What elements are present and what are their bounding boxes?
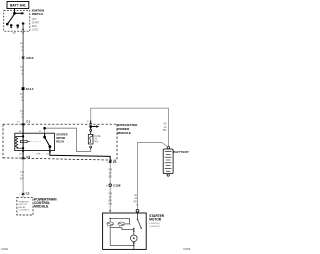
- wire start output down: [22, 24, 24, 125]
- wire battery positive cable to starter: [138, 142, 168, 209]
- svg-text:C2: C2: [26, 155, 30, 159]
- svg-text:BR: BR: [20, 178, 24, 180]
- svg-text:40A: 40A: [94, 140, 99, 143]
- svg-text:C1: C1: [113, 160, 117, 164]
- relay coil junction squares: [22, 135, 24, 137]
- wire feed arrow to other switch contacts: [15, 12, 22, 14]
- relay contact output wire to starter solenoid: [50, 147, 110, 162]
- solenoid hold-in winding L2: [118, 222, 125, 226]
- svg-text:TAB: TAB: [108, 202, 113, 205]
- wire relay coil to PCM: [22, 151, 24, 159]
- wire solenoid feed to windings: [109, 218, 111, 245]
- wire solenoid return to motor ground node: [110, 245, 134, 247]
- svg-text:FUSE: FUSE: [94, 136, 101, 138]
- splice S114: [22, 88, 24, 90]
- svg-text:MODULE: MODULE: [34, 205, 49, 209]
- svg-text:RD: RD: [134, 202, 138, 204]
- node B+ feed junction: [90, 126, 92, 128]
- relay contact arm: [45, 137, 50, 147]
- svg-text:87A: 87A: [37, 153, 41, 156]
- connector C2 into PCM: [22, 192, 24, 195]
- integrated power module dashed border: [3, 123, 117, 125]
- switch contact OFF: [10, 25, 12, 27]
- node battery feed junction in switch: [14, 12, 16, 14]
- svg-text:MOTOR: MOTOR: [149, 217, 162, 221]
- svg-text:CONTROL: CONTROL: [19, 210, 30, 212]
- starter contact fixed B+ terminal: [137, 219, 139, 221]
- svg-text:MOTOR: MOTOR: [19, 204, 28, 206]
- svg-text:SWITCH: SWITCH: [32, 12, 43, 16]
- wire feed arrow to other IPM circuits: [91, 126, 97, 128]
- connector crossing battery feed into IPM: [90, 122, 92, 125]
- relay contact fixed terminal: [44, 133, 46, 137]
- node solenoid feed junction: [109, 218, 111, 220]
- battery B1: [167, 147, 169, 149]
- connector crossing relay output out of IPM: [109, 160, 111, 163]
- switch contact START: [22, 23, 24, 25]
- svg-text:LOCK: LOCK: [32, 28, 39, 31]
- node BATT A41 feed box: [7, 2, 29, 9]
- svg-text:BR: BR: [109, 176, 113, 178]
- svg-text:S114: S114: [26, 87, 34, 91]
- wire fuse to B+ junction: [90, 127, 92, 130]
- starter contact load terminal: [133, 228, 135, 230]
- svg-text:RD: RD: [163, 128, 167, 132]
- svg-text:04058: 04058: [183, 247, 191, 251]
- wire fused B+ to relay contact: [45, 128, 91, 151]
- svg-text:( 4G02-M ): ( 4G02-M ): [149, 223, 160, 225]
- svg-text:STARTER: STARTER: [19, 200, 29, 203]
- starter motor relay K1 box: [15, 133, 55, 150]
- svg-text:RELAY: RELAY: [56, 140, 64, 143]
- connector C198 inline: [109, 184, 112, 187]
- svg-text:RELAY: RELAY: [19, 206, 27, 209]
- starter contact arm: [138, 219, 142, 228]
- wire batt box to ignition switch: [14, 9, 16, 14]
- svg-text:C2: C2: [26, 191, 30, 195]
- fuse F23: [90, 129, 92, 131]
- svg-text:BR: BR: [109, 200, 113, 202]
- svg-text:( 4G03-M ): ( 4G03-M ): [149, 226, 160, 228]
- svg-text:C1: C1: [26, 120, 30, 124]
- relay coil vertical wire: [22, 124, 24, 150]
- terminal B+ at starter: [136, 209, 139, 212]
- mechanical link solenoid to contact: [125, 223, 132, 226]
- connector C210: [22, 55, 24, 58]
- connector crossing coil wire out of IPM: [22, 156, 24, 159]
- relay mechanical link: [31, 141, 42, 143]
- svg-text:BATTERY: BATTERY: [174, 150, 190, 154]
- motor armature: [131, 235, 138, 242]
- relay coil winding: [15, 136, 23, 148]
- connector crossing C1 into IPM: [22, 122, 24, 125]
- wire winding return: [110, 228, 134, 230]
- powertrain control module dashed box: [17, 197, 33, 215]
- relay resistor element: [20, 140, 27, 142]
- svg-text:C198: C198: [113, 184, 121, 188]
- svg-text:MODULE: MODULE: [118, 131, 131, 135]
- starter motor M1 box: [103, 213, 147, 249]
- wire motor to ground: [133, 242, 135, 250]
- solenoid pull-in winding L1: [107, 222, 114, 226]
- ignition switch S1 dashed housing: [4, 10, 30, 31]
- wire battery to IPM: [90, 121, 92, 125]
- switch wiper arm: [8, 14, 15, 24]
- svg-text:C210: C210: [26, 56, 34, 60]
- terminal solenoid stud: [109, 210, 111, 211]
- svg-text:0408a: 0408a: [1, 247, 9, 251]
- svg-text:BATT A41: BATT A41: [10, 4, 26, 8]
- switch contact RUN: [17, 25, 19, 27]
